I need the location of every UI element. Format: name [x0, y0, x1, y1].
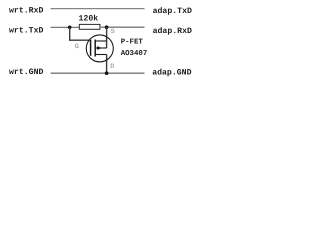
- svg-text:S: S: [111, 28, 115, 35]
- svg-text:adap.RxD: adap.RxD: [153, 27, 192, 36]
- junction gate node: [68, 26, 72, 30]
- svg-text:adap.GND: adap.GND: [152, 69, 191, 78]
- svg-text:AO3407: AO3407: [121, 50, 148, 58]
- wire resistor to adap.RxD: [100, 26, 145, 28]
- wire wrt.GND to adap.GND: [51, 72, 145, 74]
- channel bar: [94, 40, 96, 57]
- svg-text:120k: 120k: [79, 15, 99, 24]
- drain bottom stub: [95, 54, 106, 56]
- svg-text:wrt.RxD: wrt.RxD: [9, 6, 43, 15]
- resistor 120k: [79, 24, 100, 29]
- svg-text:wrt.GND: wrt.GND: [9, 68, 43, 77]
- svg-text:G: G: [75, 43, 79, 50]
- gate bar: [90, 40, 92, 56]
- wire drain net vertical: [106, 55, 108, 74]
- bulk arrow: [97, 46, 102, 50]
- transistor Q1 P-FET AO3407: [86, 35, 113, 62]
- transistor body circle: [86, 35, 113, 62]
- wire gate net horizontal: [69, 39, 91, 41]
- svg-text:D: D: [110, 63, 114, 70]
- source top stub: [95, 40, 106, 42]
- svg-text:wrt.TxD: wrt.TxD: [9, 27, 43, 36]
- svg-text:adap.TxD: adap.TxD: [153, 7, 192, 16]
- junction source node: [105, 25, 109, 29]
- svg-text:P-FET: P-FET: [121, 39, 144, 47]
- bulk middle stub: [95, 47, 106, 49]
- wire gate net vertical: [69, 27, 71, 40]
- wire wrt.RxD to adap.TxD: [51, 8, 145, 10]
- junction drain node: [105, 71, 109, 75]
- wire source net vertical: [106, 27, 108, 48]
- wire wrt.TxD to resistor: [51, 26, 80, 28]
